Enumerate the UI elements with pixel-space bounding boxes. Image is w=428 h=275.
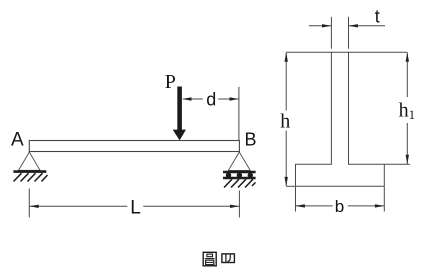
svg-text:L: L <box>130 198 141 219</box>
svg-text:b: b <box>335 197 344 216</box>
svg-text:B: B <box>245 129 257 149</box>
svg-text:t: t <box>375 7 380 27</box>
svg-text:h1: h1 <box>399 100 416 123</box>
svg-text:d: d <box>206 90 216 110</box>
svg-text:A: A <box>11 129 24 150</box>
svg-text:h: h <box>280 111 290 133</box>
svg-text:P: P <box>165 71 176 93</box>
